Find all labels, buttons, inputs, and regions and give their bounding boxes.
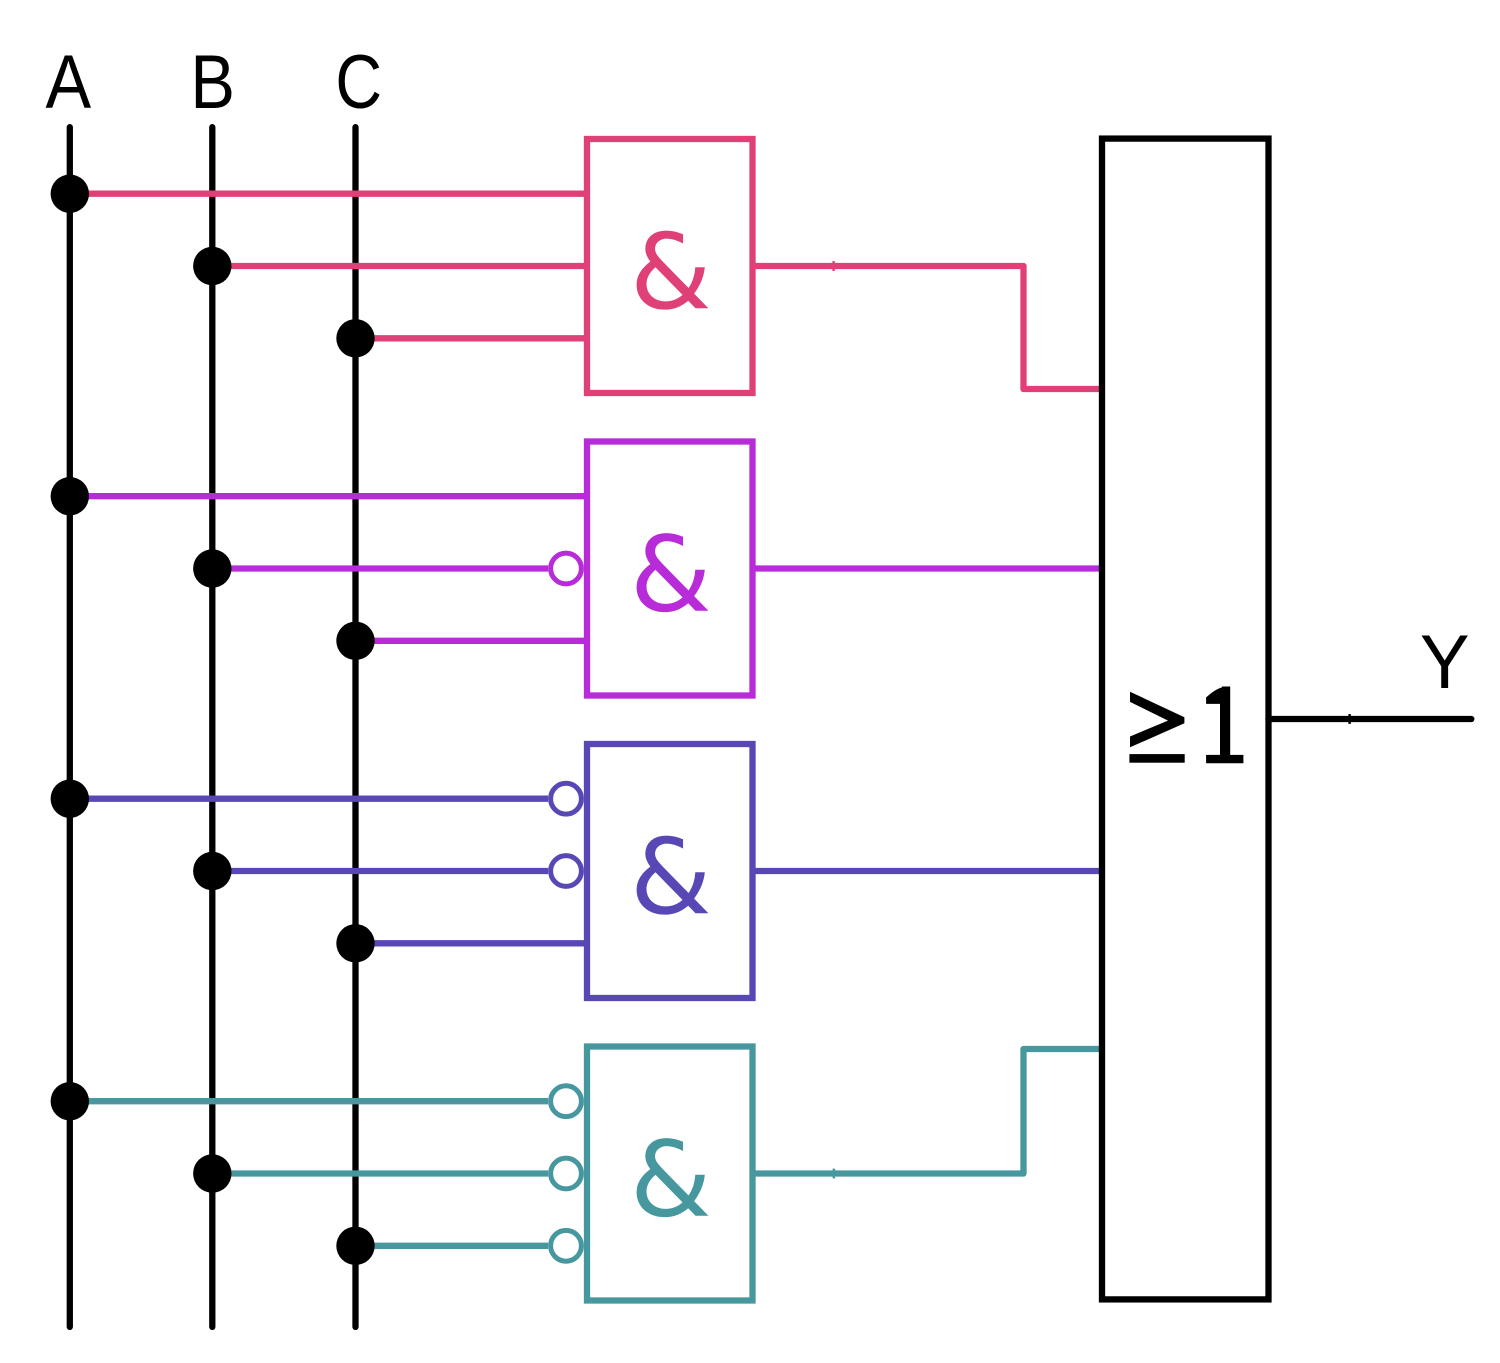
AND gate U2 label &: [637, 533, 709, 612]
inversion bubble AND2 input B: [551, 553, 582, 584]
AND gate U4 box: [587, 1047, 753, 1301]
wire AND2 output to OR: [753, 565, 1103, 571]
junction node A1: [51, 175, 89, 213]
junction node A3: [51, 780, 89, 818]
wire AND4 input A: [70, 1098, 548, 1104]
AND gate U4 label &: [637, 1138, 709, 1217]
AND gate U3 box: [587, 744, 753, 998]
AND gate U1 box: [587, 139, 753, 393]
svg-text:B: B: [190, 40, 235, 125]
AND gate U1 label &: [637, 231, 709, 310]
wire AND2 input A: [70, 493, 587, 499]
svg-text:A: A: [45, 41, 91, 125]
label C: [335, 39, 382, 124]
junction node A2: [51, 477, 89, 515]
wire AND2 input C: [356, 638, 588, 644]
wire AND2 input B: [212, 565, 548, 571]
junction node A4: [51, 1082, 89, 1120]
wire AND3 output to OR: [753, 868, 1103, 874]
net C vertical line: [352, 127, 358, 1327]
junction node B2: [193, 549, 231, 587]
label B: [190, 40, 235, 125]
OR gate U5 label >=1: [1130, 692, 1184, 748]
inversion bubble AND4 input C: [551, 1230, 582, 1261]
svg-text:C: C: [335, 39, 382, 124]
wire AND4 input B: [212, 1170, 548, 1176]
junction node C1: [336, 319, 374, 357]
inversion bubble AND3 input A: [551, 783, 582, 814]
label A: [45, 41, 91, 125]
inversion bubble AND4 input B: [551, 1158, 582, 1189]
label Y: [1420, 619, 1470, 704]
junction node B4: [193, 1154, 231, 1192]
wire AND1 input C: [356, 335, 588, 341]
net B vertical line: [209, 127, 215, 1327]
junction node C2: [336, 622, 374, 660]
wire joint tick AND4 output: [833, 1169, 836, 1179]
junction node B3: [193, 852, 231, 890]
wire AND4 input C: [356, 1243, 549, 1249]
wire AND1 input A: [70, 191, 587, 197]
inversion bubble AND4 input A: [551, 1086, 582, 1117]
wire joint tick output Y: [1348, 714, 1351, 724]
wire joint tick AND1 output: [832, 261, 835, 271]
net A vertical line: [67, 127, 73, 1327]
wire AND1 input B: [212, 263, 587, 269]
wire AND3 input A: [70, 796, 548, 802]
inversion bubble AND3 input B: [551, 856, 582, 887]
OR gate U5 box: [1102, 139, 1269, 1300]
junction node C4: [336, 1227, 374, 1265]
svg-text:Y: Y: [1420, 619, 1470, 704]
wire output Y: [1269, 716, 1472, 722]
junction node C3: [336, 924, 374, 962]
AND gate U3 label &: [637, 836, 709, 915]
wire AND1 output to OR: [753, 266, 1103, 389]
junction node B1: [193, 247, 231, 285]
wire AND3 input B: [212, 868, 548, 874]
wire AND4 output to OR: [753, 1049, 1103, 1174]
AND gate U2 box: [587, 442, 753, 696]
wire AND3 input C: [356, 940, 588, 946]
